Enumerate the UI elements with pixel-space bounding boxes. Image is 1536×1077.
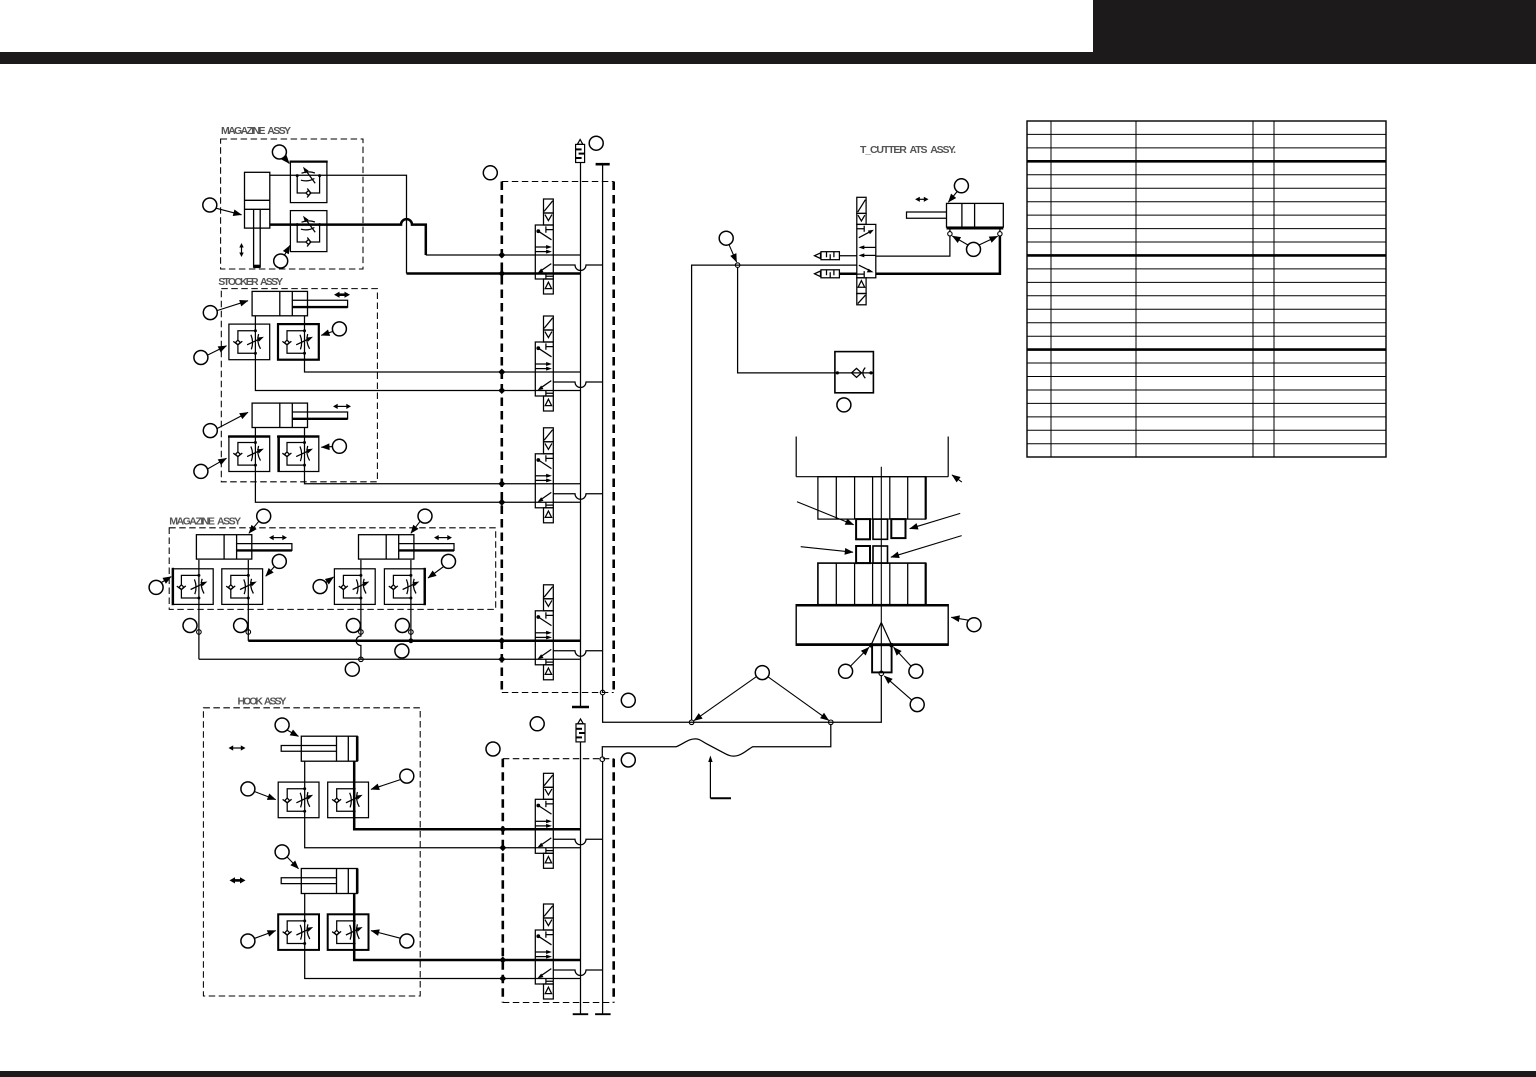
dashed enclosure STOCKER ASSY (221, 289, 377, 482)
wire: cyl1 right port to valve2 upper (305, 316, 502, 372)
svg-text:STOCKER ASSY: STOCKER ASSY (218, 276, 283, 288)
node: branch to return run (829, 720, 834, 725)
VA lower port line (503, 847, 581, 849)
speed controller 2L (229, 436, 270, 472)
VB upper port line (thick) (503, 959, 581, 962)
VA border junction dots (499, 826, 506, 852)
balloon: hook SC2L (241, 934, 255, 948)
balloon: mag2 cyl A (257, 509, 271, 523)
filter fitting F2 (between manifolds) (576, 719, 585, 742)
balloon: stocker SC1R (332, 322, 346, 336)
cylinder 1 (rod left) (281, 736, 357, 761)
balloon: mag2 cyl B (418, 509, 432, 523)
balloon: hook cyl1 (275, 718, 289, 732)
speed controller 2R (278, 436, 319, 472)
V1 outlet hop to line2 (553, 265, 602, 271)
solenoid valve V3 (535, 428, 553, 523)
check valve block (835, 352, 874, 393)
stroke arrow (915, 197, 928, 202)
balloon: mag2 SC A-R (272, 554, 286, 568)
balloon: stocker SC2R (332, 439, 346, 453)
VA outlet hop to line2 (553, 839, 602, 845)
balloon: mag1 SC lower (274, 254, 288, 268)
cylinder B (rod right) (359, 535, 455, 559)
leader: lower finger left (801, 547, 853, 553)
balloon: spindle dot right (909, 664, 923, 678)
dashed enclosure HOOK ASSY (203, 708, 420, 996)
leader: lower finger right (891, 536, 962, 558)
wire: cyl A left port down to valve4 lower line (198, 560, 200, 659)
thick line to valve4 upper port (248, 640, 501, 643)
bold edge on SC A-L (172, 568, 174, 605)
speed controller (lower) (290, 211, 327, 252)
thin line to valve4 lower port (199, 658, 502, 660)
node: branch to check valve (735, 263, 740, 268)
balloon: mag2 SC B-L (313, 580, 327, 594)
stroke arrow 1 (thin) (229, 745, 246, 750)
solenoid valve VB (535, 904, 553, 999)
junction circle cyl B left on thin line (359, 657, 364, 662)
wire: drop to check valve (738, 267, 835, 373)
upper gripper fingers (856, 519, 870, 539)
leader: housing right edge (952, 475, 962, 482)
wire: cyl2 right port to valve B upper (thick) (354, 894, 503, 961)
cylinder 2 (rod right) (252, 403, 348, 427)
parts table (empty) (1027, 121, 1386, 457)
dashed manifold 1 enclosure (bold sides) (502, 182, 614, 693)
stroke arrow (bold) (334, 292, 350, 298)
V3 outlet hop to line2 (553, 494, 602, 500)
line 2 top cap (596, 163, 610, 166)
speed controller 1R (278, 324, 319, 360)
supply line 2 lower run (602, 762, 604, 1015)
wire: cyl1 right port to valve A upper (thick) (354, 761, 503, 829)
supply line 1 lower run (580, 742, 582, 1014)
top right black box (1093, 0, 1536, 56)
VA upper port line (thick) (503, 828, 581, 831)
balloon: mag2 SC B-R (442, 554, 456, 568)
balloon: stocker SC2L (194, 464, 208, 478)
svg-text:HOOK ASSY: HOOK ASSY (238, 696, 287, 708)
V2 outlet hop to line2 (553, 382, 602, 388)
balloon: manifold2 top right (621, 753, 635, 767)
V4 lower port line (502, 658, 581, 660)
solenoid valve V1 (535, 199, 553, 294)
solenoid valve V2 (535, 316, 553, 411)
balloon: mag2 thick junction (395, 644, 409, 658)
wire: cyl2 left port to valve3 lower (255, 428, 501, 503)
V4 border junction dots (498, 637, 505, 663)
V3 border junction dots (498, 480, 505, 506)
balloon: hook cyl2 (275, 845, 289, 859)
wire: cyl1 left port to valve A lower (305, 761, 503, 848)
spindle port fitting (879, 671, 884, 676)
wire: cyl A right port down to thick line (247, 560, 249, 641)
top black bar (0, 52, 1536, 64)
speed controller 1L (278, 782, 319, 818)
wire: right port to valve lower (thick) (876, 236, 1000, 274)
dashed enclosure MAGAZINE ASSY lower (169, 528, 496, 610)
balloon: mag1 cylinder (203, 198, 217, 212)
speed controller 2L (278, 914, 319, 950)
V2 port lines into manifold (502, 372, 581, 391)
svg-text:MAGAZINE ASSY: MAGAZINE ASSY (169, 516, 241, 528)
V1 upper port line (426, 254, 581, 256)
stroke arrow (up-down) (239, 243, 243, 257)
junction at manifold2 top (600, 757, 605, 762)
lower gripper fingers (856, 546, 870, 563)
speed controller A-R (222, 569, 263, 605)
cylinder TC (rod left) (907, 203, 1004, 228)
V2 border junction dots (498, 369, 505, 395)
V1 border junction dots (498, 252, 505, 278)
speed controller A-L (172, 569, 213, 605)
wire: cyl2 left port to valve B lower (305, 894, 503, 979)
balloon: stocker cyl1 (203, 306, 217, 320)
balloon: stocker cyl2 (203, 424, 217, 438)
V1 lower port line (thick) (407, 272, 581, 275)
balloon: check valve (837, 398, 851, 412)
VB lower port line (503, 978, 581, 980)
cylinder 2 (rod left) (281, 869, 357, 894)
balloon: hook SC2R (400, 934, 414, 948)
datum arrow symbol (709, 759, 711, 798)
line 2 bottom cap (595, 1013, 611, 1015)
junction at manifold1 bottom (600, 690, 605, 695)
wire: cyl2 right port to valve3 upper (305, 428, 502, 484)
wire: cyl B left port down crossing thick line (356, 560, 361, 659)
stroke arrow A (269, 535, 287, 540)
dashed manifold 2 enclosure (bold sides) (503, 759, 614, 1003)
solenoid valve VA (535, 773, 553, 868)
balloon: stocker SC1L (194, 351, 208, 365)
stroke arrow 2 (bold) (230, 877, 246, 883)
V4 upper port line (thick) (502, 640, 581, 643)
balloon: hook SC1L (241, 782, 255, 796)
VB border junction dots (499, 957, 506, 983)
junction dot cyl B right on thick line (409, 638, 414, 643)
leader: upper finger left (797, 502, 854, 525)
upper plate stack (818, 477, 926, 519)
speed controller 1R (328, 782, 369, 818)
balloon: filter F2 (530, 717, 544, 731)
balloon: spindle fitting (910, 698, 924, 712)
cylinder 1 (rod right) (252, 291, 348, 315)
speed controller (upper) (290, 162, 327, 203)
bold outline on right speed controllers (278, 324, 319, 360)
fitting circles on port lines (197, 630, 202, 635)
index pointer triangle (871, 623, 892, 646)
balloon: filter F1 (589, 136, 603, 150)
base block (796, 605, 948, 646)
balloon: hook SC1R (400, 769, 414, 783)
spindle stub (872, 645, 892, 672)
upper housing outline (796, 437, 948, 477)
speed controller 1L (229, 324, 270, 360)
lower plate stack (818, 563, 926, 605)
filter fitting F1 (top of line 1) (576, 140, 585, 163)
wire: cyl1 left port to valve2 lower (255, 316, 501, 391)
dashed enclosure MAGAZINE ASSY (221, 139, 363, 269)
leader: upper finger right (910, 513, 961, 528)
supply line 2 upper run (602, 164, 604, 692)
svg-text:MAGAZINE ASSY: MAGAZINE ASSY (221, 125, 291, 137)
wire: cyl B right port down to thick line (410, 560, 412, 641)
balloon: tcutter ports (967, 242, 981, 256)
solenoid valve TV (horizontal, ports right) (857, 197, 876, 304)
stroke arrow (thin) (333, 404, 351, 409)
cylinder (vertical) (245, 172, 270, 267)
svg-text:T_CUTTER ATS ASSY.: T_CUTTER ATS ASSY. (860, 144, 956, 156)
wire: left port to valve upper (876, 236, 950, 256)
wire: riser up to T_CUTTER valve (692, 265, 857, 720)
wire: line2 down and across to ATS spindle (603, 676, 882, 723)
wire: cylinder top port to manifold (thin) (270, 175, 407, 273)
supply line 1 upper run (580, 163, 582, 708)
wire: muffler lower to valve (thick) (839, 273, 856, 276)
V4 outlet hop to line2 (553, 651, 602, 657)
line 1 end cap (572, 706, 589, 708)
port fittings (950, 229, 1000, 231)
balloon: ats base (967, 618, 981, 632)
speed controller 2R (328, 914, 369, 950)
balloon: spindle dot left (839, 664, 853, 678)
bold outline on lower speed controllers (278, 914, 319, 950)
wire: return run with line-break squiggle (602, 725, 831, 757)
solenoid valve V4 (535, 585, 553, 680)
balloon: main air line (triangle leaders) (755, 666, 769, 680)
node: branch to T_CUTTER riser (689, 720, 694, 725)
balloon: manifold2 top left (486, 742, 500, 756)
balloon: manifold1 bottom (621, 693, 635, 707)
wire: muffler upper to valve (839, 255, 856, 257)
balloon: mag2 thin junction (345, 662, 359, 676)
balloon: tcutter cylinder (954, 179, 968, 193)
speed controller B-R (384, 569, 425, 605)
pilot muffler upper (815, 252, 840, 260)
centre line (880, 467, 882, 672)
balloon: supply junction (719, 231, 733, 245)
pilot muffler lower (815, 270, 840, 278)
bottom black bar (0, 1071, 1536, 1077)
balloon: mag1 SC upper (272, 145, 286, 159)
wire: cylinder bottom port (thick) with hop (270, 219, 426, 255)
balloon: manifold1 (483, 166, 497, 180)
V3 port lines into manifold (502, 484, 581, 503)
stroke arrow B (434, 535, 452, 540)
line 1 bottom cap (573, 1013, 589, 1015)
VB outlet hop to line2 (553, 970, 602, 976)
balloons: mag2 fittings row (183, 619, 197, 633)
bold edge on SC B-R (424, 568, 426, 605)
speed controller B-L (334, 569, 375, 605)
cylinder A (rod right) (196, 535, 292, 559)
balloon: mag2 SC A-L (149, 580, 163, 594)
